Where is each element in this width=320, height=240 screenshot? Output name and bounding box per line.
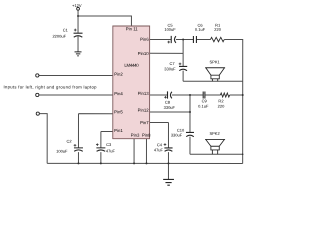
svg-text:330uF: 330uF xyxy=(164,105,176,110)
svg-text:LM4440: LM4440 xyxy=(124,63,139,68)
svg-text:330uF: 330uF xyxy=(164,66,176,71)
svg-text:C2: C2 xyxy=(66,139,72,144)
svg-text:SPK2: SPK2 xyxy=(209,131,220,136)
svg-text:100uF: 100uF xyxy=(56,149,68,154)
svg-text:Inputs for left, right and gro: Inputs for left, right and ground from l… xyxy=(4,84,98,89)
svg-text:Pin4: Pin4 xyxy=(114,91,123,96)
svg-text:330uF: 330uF xyxy=(171,133,183,138)
svg-text:Pin6: Pin6 xyxy=(140,37,149,42)
svg-text:Pin12: Pin12 xyxy=(138,108,150,113)
svg-text:47uF: 47uF xyxy=(106,148,116,153)
svg-text:SPK1: SPK1 xyxy=(209,59,220,64)
svg-text:Pin13: Pin13 xyxy=(138,91,150,96)
svg-text:220: 220 xyxy=(218,104,225,109)
svg-text:Pin8: Pin8 xyxy=(142,133,151,138)
svg-text:Pin5: Pin5 xyxy=(114,109,123,114)
svg-text:Pin3: Pin3 xyxy=(131,133,140,138)
svg-text:2200uF: 2200uF xyxy=(52,34,66,39)
svg-text:C7: C7 xyxy=(169,61,175,66)
svg-text:C1: C1 xyxy=(63,28,69,33)
svg-text:Pin10: Pin10 xyxy=(138,51,150,56)
svg-text:0.1uF: 0.1uF xyxy=(198,104,209,109)
svg-text:Pin2: Pin2 xyxy=(114,72,123,77)
svg-text:Pin 11: Pin 11 xyxy=(126,26,138,31)
svg-text:+12V: +12V xyxy=(72,3,82,8)
svg-text:C8: C8 xyxy=(165,100,171,105)
svg-text:C3: C3 xyxy=(106,142,112,147)
svg-text:47uF: 47uF xyxy=(154,147,164,152)
svg-text:100uF: 100uF xyxy=(164,27,176,32)
svg-text:220: 220 xyxy=(214,27,221,32)
svg-text:Pin1: Pin1 xyxy=(114,128,123,133)
svg-text:Pin7: Pin7 xyxy=(140,120,149,125)
svg-text:0.1uF: 0.1uF xyxy=(195,27,206,32)
